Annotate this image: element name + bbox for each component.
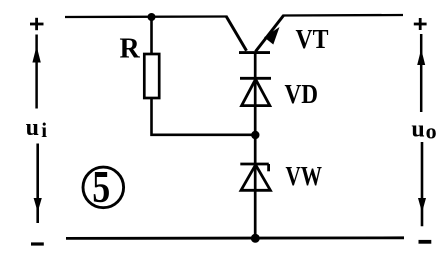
svg-text:o: o <box>426 118 437 143</box>
VW right tick <box>267 164 270 171</box>
VW cathode bar <box>240 163 268 166</box>
resistor R <box>144 54 159 98</box>
emitter arrow <box>264 27 279 45</box>
transistor VT <box>226 16 284 53</box>
base bar <box>239 51 270 54</box>
wire: top-right rail <box>283 14 404 17</box>
VD cathode bar <box>240 77 271 80</box>
svg-text:u: u <box>411 116 424 142</box>
VD triangle <box>242 79 270 105</box>
svg-text:5: 5 <box>92 161 110 212</box>
svg-text:R: R <box>120 34 141 65</box>
svg-text:VW: VW <box>286 160 323 191</box>
svg-text:i: i <box>41 118 47 142</box>
wire: bottom rail <box>66 236 404 239</box>
wire: top-left rail <box>65 15 227 18</box>
arrow: u_o lower (points down) <box>418 142 426 226</box>
svg-text:VD: VD <box>285 78 319 109</box>
wire: R bottom lead to node A <box>152 99 256 135</box>
node: junction dot top of R <box>148 13 156 21</box>
node: bottom junction dot <box>251 234 260 243</box>
label: right minus <box>419 240 432 244</box>
svg-text:VT: VT <box>296 23 329 54</box>
arrow: u_i upper (points up) <box>32 35 40 109</box>
arrow: u_i lower (points down) <box>34 144 42 224</box>
VW triangle <box>241 165 270 191</box>
wire: R top lead <box>150 17 153 54</box>
diode VD <box>240 78 271 105</box>
wire: vertical stack (base to bottom rail) <box>254 52 257 238</box>
node A: VD-VW junction dot <box>251 131 259 139</box>
zener diode VW <box>240 164 270 190</box>
collector lead <box>226 16 247 51</box>
label: left minus <box>31 242 44 245</box>
svg-text:u: u <box>26 115 39 141</box>
label: right plus <box>414 18 427 30</box>
label: left plus <box>30 18 44 30</box>
arrow: u_o upper (points up) <box>417 34 425 112</box>
emitter lead <box>256 16 284 52</box>
circled number 5 <box>83 161 124 212</box>
